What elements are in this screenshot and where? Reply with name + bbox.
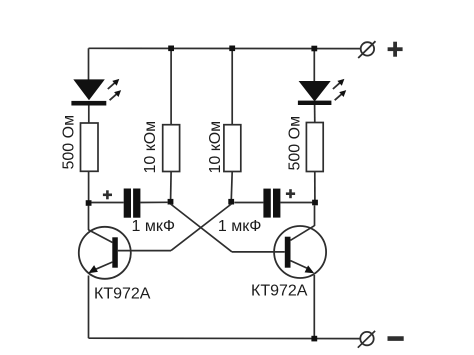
transistor Q1 body circle [79, 227, 131, 279]
svg-text:10 кОм: 10 кОм [142, 121, 159, 174]
svg-text:10 кОм: 10 кОм [207, 121, 224, 174]
wire top supply rail [89, 47, 361, 49]
wire R3 bottom to node C [230, 172, 233, 200]
resistor R4 500 Ом body [306, 123, 323, 172]
terminal circle positive (top right) [361, 42, 374, 55]
wire top rail junction to R2 (node B branch) [170, 48, 172, 124]
junction dot on top rail at LED2 branch [311, 46, 317, 52]
LED D2 emission arrow upper [333, 79, 345, 89]
junction dot on top rail at R3 [229, 46, 235, 52]
capacitor C2 left plate [263, 189, 270, 218]
transistor Q2 base bar [285, 237, 291, 268]
wire node D down to Q2 collector [314, 205, 316, 226]
wire Q2 base line from bend to base bar [232, 251, 285, 253]
svg-text:КТ972А: КТ972А [94, 286, 151, 303]
transistor Q1 collector lead [88, 230, 112, 243]
wire cross-coupling diagonal node C to Q1 base bend [171, 204, 231, 251]
terminal negative slash [358, 331, 375, 348]
transistor Q2 emitter lead [291, 261, 309, 269]
wire cross-coupling diagonal node B to Q2 base bend [171, 204, 232, 252]
resistor R2 10 кОм body [163, 125, 180, 172]
transistor Q1 emitter lead [94, 262, 113, 270]
node D junction (Q2 collector node) [312, 200, 318, 206]
wire R4 bottom to node D [314, 172, 316, 201]
wire C2 right plate to node D [280, 202, 312, 204]
wire right branch: rail junction down to LED2 anode [313, 49, 315, 82]
capacitor C1 plus polarity mark [103, 190, 112, 199]
junction dot on bottom rail at Q2 emitter [311, 336, 317, 342]
capacitor C1 left plate [124, 189, 131, 218]
transistor Q2 body circle [274, 226, 326, 278]
wire top rail junction to R3 (node C branch) [231, 48, 233, 124]
terminal positive slash [358, 41, 375, 58]
wire Q1 base line from bend to base bar [118, 250, 171, 252]
svg-text:500 Ом: 500 Ом [286, 116, 303, 171]
node B junction [168, 199, 174, 205]
terminal minus sign [388, 336, 404, 341]
LED D1 cathode bar [71, 101, 106, 106]
wire node A down to Q1 collector [88, 206, 90, 231]
LED D2 emission arrow lower [335, 90, 347, 100]
svg-text:КТ972А: КТ972А [251, 283, 308, 300]
svg-text:1 мкФ: 1 мкФ [132, 218, 176, 235]
node A junction (Q1 collector node) [86, 200, 92, 206]
terminal plus sign [388, 42, 403, 57]
wire bottom return rail [89, 337, 361, 339]
svg-text:1 мкФ: 1 мкФ [218, 218, 262, 235]
wire LED1 cathode to R1 top [88, 106, 90, 124]
wire Q2 emitter to bottom rail [313, 275, 315, 339]
LED D1 emission arrow upper [108, 79, 120, 89]
wire R2 bottom to node B [170, 172, 173, 200]
node C junction [228, 199, 234, 205]
LED D2 (right) diode triangle [299, 81, 331, 102]
capacitor C2 right plate [273, 189, 280, 218]
transistor Q2 emitter arrowhead [305, 265, 315, 273]
wire R1 bottom to node A [88, 171, 90, 200]
capacitor C1 right plate [133, 189, 140, 218]
wire node C to C2 left plate [234, 202, 263, 204]
junction dot on top rail at R2 [168, 46, 174, 52]
capacitor C2 plus polarity mark [286, 189, 295, 198]
transistor Q1 emitter arrowhead [88, 265, 98, 273]
LED D1 (left) diode triangle [73, 79, 105, 100]
svg-text:500 Ом: 500 Ом [61, 115, 78, 170]
LED D2 cathode bar [298, 101, 332, 105]
wire node A to C1 left plate [91, 202, 123, 204]
wire Q1 emitter to bottom rail [88, 276, 90, 339]
transistor Q2 collector lead [291, 226, 315, 241]
wire C1 right plate to node B [140, 201, 167, 203]
transistor Q1 base bar [112, 237, 118, 267]
terminal circle negative (bottom right) [360, 332, 373, 345]
resistor R1 500 Ом body [81, 123, 99, 171]
wire left branch: rail corner down to LED1 anode [88, 48, 90, 80]
LED D1 emission arrow lower [110, 90, 122, 100]
resistor R3 10 кОм body [224, 125, 241, 172]
wire LED2 cathode to R4 top [314, 105, 316, 123]
